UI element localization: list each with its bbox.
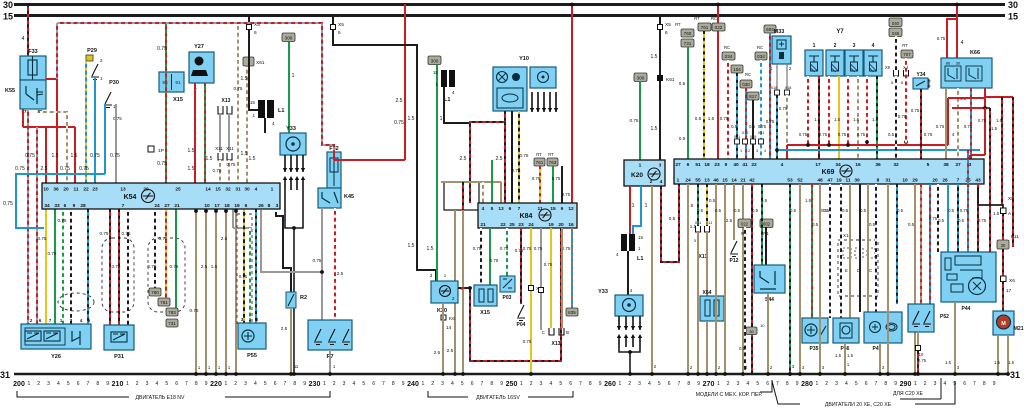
wire red continues down K66 (984, 108, 986, 155)
svg-text:39: 39 (854, 178, 860, 184)
svg-text:1.5: 1.5 (52, 153, 59, 159)
svg-text:1: 1 (440, 116, 443, 122)
svg-text:1.5: 1.5 (408, 116, 415, 122)
solenoid valve block Y26 (21, 324, 91, 360)
svg-text:K84: K84 (520, 213, 533, 220)
svg-text:3: 3 (276, 203, 279, 209)
svg-text:0.5: 0.5 (709, 198, 716, 203)
svg-text:2.5: 2.5 (337, 271, 344, 276)
junction injector feed c (846, 143, 850, 147)
wire tan below X64 to ground (706, 321, 708, 374)
svg-text:0.75: 0.75 (630, 118, 639, 123)
svg-text:0.5: 0.5 (842, 208, 849, 213)
svg-text:1: 1 (126, 381, 129, 387)
svg-text:0.5: 0.5 (823, 208, 830, 213)
svg-text:2: 2 (650, 179, 653, 185)
svg-text:8: 8 (392, 381, 395, 387)
svg-text:X11: X11 (215, 146, 223, 151)
svg-text:9: 9 (500, 381, 503, 387)
wire grey from relay K45 to R7 (321, 208, 323, 320)
wire tan from relay K20 low to ground bus (442, 303, 444, 374)
svg-text:8: 8 (589, 381, 592, 387)
ignition coil L1 right (616, 234, 644, 262)
wire red branch to fuel pump column (985, 96, 1013, 98)
wire black/white tag 040 to X9 (895, 36, 897, 70)
code tag pair 040 048 (889, 18, 902, 37)
wire red/black to valve P31 (109, 209, 111, 325)
svg-text:6: 6 (687, 162, 690, 168)
wire cyan/red collector drop to P44 (967, 150, 969, 252)
svg-text:ДВИГАТЕЛЬ E18 NV: ДВИГАТЕЛЬ E18 NV (136, 395, 186, 401)
svg-text:220: 220 (210, 381, 222, 388)
svg-text:3: 3 (47, 381, 50, 387)
wire yellow/black K69 pin 13 to X11 (706, 184, 708, 226)
svg-text:6: 6 (274, 381, 277, 387)
sensor P04 (517, 305, 526, 328)
connector X5 grey (539, 288, 544, 293)
junction R7 ground (328, 372, 332, 376)
wire tan K69 pin 8 to ground (887, 184, 889, 374)
svg-text:0.75: 0.75 (394, 120, 404, 126)
svg-text:Y26: Y26 (51, 354, 61, 360)
svg-text:P52: P52 (940, 314, 949, 320)
svg-text:3: 3 (853, 43, 856, 49)
svg-text:1.5: 1.5 (1008, 360, 1014, 365)
svg-text:6: 6 (865, 381, 868, 387)
svg-text:780: 780 (151, 290, 159, 295)
svg-text:P12: P12 (730, 258, 739, 264)
wire cyan collector line above K69 (779, 149, 980, 151)
ignition coil L1 16SV (433, 70, 455, 103)
svg-text:37: 37 (955, 162, 961, 168)
wire tan below P44 to ground (954, 302, 956, 374)
svg-text:10: 10 (760, 323, 765, 328)
svg-text:F33: F33 (28, 49, 37, 55)
svg-text:6: 6 (338, 30, 341, 36)
svg-text:0.75: 0.75 (213, 168, 222, 173)
engine control unit K54 (42, 183, 280, 209)
svg-text:X13: X13 (222, 98, 231, 104)
wire red jumper from K55 to feed (46, 78, 57, 80)
svg-text:783: 783 (168, 310, 176, 315)
svg-text:38: 38 (943, 162, 949, 168)
junction tan 16SV b (461, 372, 465, 376)
bus 15 (ignition rail) (14, 14, 1005, 17)
svg-text:1: 1 (677, 178, 680, 184)
svg-text:0.75: 0.75 (227, 162, 236, 167)
svg-text:Y33: Y33 (286, 126, 296, 132)
code tag 707 (901, 50, 913, 58)
svg-text:F11: F11 (1011, 234, 1019, 240)
svg-text:30: 30 (1001, 243, 1006, 248)
svg-text:1.5: 1.5 (241, 76, 248, 82)
wire red/black loop K84 pin 20 to relay K20 low (458, 228, 561, 361)
svg-text:0.5: 0.5 (908, 222, 915, 227)
svg-text:11: 11 (845, 178, 850, 184)
svg-text:1.5: 1.5 (211, 264, 218, 269)
svg-text:763: 763 (549, 160, 557, 165)
svg-text:K20: K20 (631, 172, 643, 179)
svg-text:6: 6 (668, 381, 671, 387)
svg-text:034: 034 (757, 54, 765, 59)
svg-text:1: 1 (271, 187, 274, 193)
svg-text:27: 27 (164, 203, 170, 209)
svg-text:9: 9 (106, 381, 109, 387)
wire tan ground 1 under K54 (195, 210, 197, 374)
svg-text:0.75: 0.75 (799, 132, 808, 137)
svg-text:3: 3 (737, 381, 740, 387)
wire black from R1 to switch S44 (765, 227, 767, 265)
wire green/red K69 to gauge P35 (811, 184, 813, 318)
svg-text:0.75: 0.75 (500, 246, 509, 251)
svg-text:1.5: 1.5 (805, 198, 812, 203)
svg-text:0.75: 0.75 (918, 358, 927, 363)
connector below P52 (916, 346, 921, 351)
wire red K66 pin 87 down right (984, 88, 986, 108)
svg-text:23: 23 (714, 162, 720, 168)
svg-text:835: 835 (568, 310, 576, 315)
svg-text:25: 25 (175, 187, 181, 193)
svg-text:6: 6 (77, 381, 80, 387)
connector X10 (529, 286, 534, 291)
wire red/black from Y10 to K84 pin 6 (504, 122, 506, 203)
svg-text:0.5: 0.5 (860, 208, 867, 213)
K84 bottom pin numbers (480, 222, 574, 228)
wire black from bus 15 through X5 X61 to coil L1 (249, 15, 262, 110)
code tag 022 (712, 23, 725, 31)
code tag 030 (740, 80, 752, 88)
gauge P35 (802, 318, 828, 352)
svg-text:5: 5 (756, 381, 759, 387)
svg-text:6: 6 (509, 206, 512, 212)
svg-text:33: 33 (54, 203, 60, 209)
wire grey from X13 b (228, 114, 230, 152)
svg-text:X13: X13 (552, 341, 561, 347)
relay K55 (20, 80, 46, 109)
svg-text:0.75: 0.75 (924, 132, 933, 137)
svg-text:31: 31 (1010, 370, 1020, 380)
K54 top pin numbers (43, 187, 273, 193)
svg-text:8: 8 (983, 381, 986, 387)
svg-text:7: 7 (776, 381, 779, 387)
svg-text:0.75: 0.75 (523, 246, 532, 251)
svg-text:22: 22 (751, 162, 757, 168)
svg-text:4: 4 (272, 121, 275, 126)
junction P46 ground (843, 372, 847, 376)
wire black spark return right (619, 347, 640, 352)
svg-text:0.75: 0.75 (532, 176, 541, 181)
svg-text:2.5: 2.5 (460, 156, 467, 162)
svg-text:X11: X11 (695, 221, 701, 225)
svg-text:6: 6 (766, 381, 769, 387)
junction pin46 ground (714, 372, 718, 376)
wire black/red K69 pin 43 to P44 (977, 184, 979, 252)
junction injector feed b (827, 143, 831, 147)
wire colored injector right pin to K69 (857, 76, 859, 159)
gauge P55 (238, 323, 266, 359)
wire black/white K69 pin 47 down (829, 184, 831, 318)
wire green to code 783 (175, 209, 177, 308)
valve P31 (104, 325, 134, 360)
svg-text:0.75: 0.75 (159, 236, 168, 241)
wire black/cyan K69 pin 7 to P44 (957, 184, 959, 252)
code tag 781 (158, 298, 170, 306)
svg-text:2: 2 (924, 381, 927, 387)
wire black/red K69 pin 42 down (751, 184, 753, 374)
svg-text:6: 6 (64, 203, 67, 209)
injector Y7 cylinder 3 (845, 43, 863, 76)
wire green from tag 763 to K84 pin 9 (552, 166, 554, 203)
wire red K20 pin to coil L1 right (629, 186, 631, 234)
svg-text:3: 3 (343, 381, 346, 387)
pressure unit M33 (770, 29, 792, 71)
wire tan/white K66 to K69 pin 37 (957, 88, 959, 159)
wire red/white X9 to feed line (905, 58, 907, 145)
svg-text:RC: RC (724, 45, 730, 50)
wire grey K84 pin 19 down (540, 228, 542, 330)
connector pair X9 X9 (885, 65, 909, 85)
code tag 300 (282, 33, 295, 42)
wire cyan/red K66 to K69 pin 3 (970, 88, 972, 159)
svg-text:1: 1 (292, 73, 295, 79)
sensor P03 (500, 276, 515, 301)
svg-text:16: 16 (568, 222, 574, 228)
svg-text:8: 8 (490, 381, 493, 387)
junction red jumper (983, 106, 987, 110)
svg-text:290: 290 (900, 381, 912, 388)
svg-text:RC: RC (757, 45, 763, 50)
svg-text:2: 2 (834, 43, 837, 49)
wire black spark return to ground (285, 190, 303, 228)
svg-text:1.5: 1.5 (834, 117, 840, 122)
svg-text:022: 022 (741, 222, 749, 227)
svg-text:P29: P29 (87, 48, 97, 54)
junction pin53 ground (788, 372, 792, 376)
wire colored injector right pin to K69 (838, 76, 840, 159)
svg-text:K45: K45 (344, 194, 354, 200)
wire red/black down to P44 area (989, 108, 991, 252)
svg-text:6: 6 (175, 381, 178, 387)
svg-text:0.75: 0.75 (79, 166, 89, 172)
svg-text:X19: X19 (742, 131, 749, 135)
wire tan below M21 to ground (997, 335, 999, 374)
svg-text:0.5: 0.5 (731, 124, 737, 129)
svg-text:4: 4 (660, 179, 663, 185)
svg-text:30: 30 (244, 187, 250, 193)
svg-text:0.5: 0.5 (669, 216, 676, 221)
svg-text:2.5: 2.5 (447, 348, 454, 353)
svg-text:9: 9 (796, 381, 799, 387)
K69 top pin numbers (675, 162, 971, 168)
svg-text:0.75: 0.75 (520, 153, 529, 158)
svg-text:1P: 1P (158, 148, 164, 154)
svg-text:2: 2 (825, 381, 828, 387)
svg-text:17: 17 (815, 162, 821, 168)
svg-text:0.5: 0.5 (869, 222, 876, 227)
svg-text:P35: P35 (810, 346, 819, 352)
wire tan to P47 (867, 184, 869, 312)
svg-text:2: 2 (136, 381, 139, 387)
code tag 835 (566, 308, 578, 316)
wire cyan from sensor P30 (104, 104, 106, 174)
section brace engines 20 XE C20 XE (772, 381, 955, 408)
svg-text:0.75: 0.75 (100, 231, 109, 236)
injector Y7 cylinder 1 (805, 43, 823, 76)
svg-text:5: 5 (694, 239, 696, 243)
svg-text:7: 7 (185, 381, 188, 387)
svg-text:3: 3 (441, 381, 444, 387)
svg-text:23: 23 (518, 222, 524, 228)
code tag 300 right (634, 73, 647, 82)
pins of Y26 (30, 318, 91, 323)
wire tan below M21 b to ground (1007, 335, 1009, 374)
relay K20 low (fuel pump relay) (431, 281, 463, 314)
svg-text:Y33: Y33 (598, 289, 608, 295)
svg-text:0.5: 0.5 (752, 208, 759, 213)
svg-text:22: 22 (83, 187, 89, 193)
svg-text:19: 19 (836, 178, 842, 184)
svg-text:2: 2 (234, 381, 237, 387)
wire thin M33 pin 1 (776, 64, 778, 90)
dashed harness outline left (102, 238, 134, 312)
svg-text:L1: L1 (278, 108, 284, 114)
connector pair X13 (218, 98, 232, 114)
svg-text:X11: X11 (706, 221, 712, 225)
svg-text:260: 260 (604, 381, 616, 388)
junction red black loop (468, 286, 472, 290)
wire tan K84 pin 16 to connector X13 B (561, 228, 563, 328)
svg-text:2.5: 2.5 (496, 156, 503, 162)
svg-text:0.75: 0.75 (110, 153, 120, 159)
svg-text:1.5: 1.5 (241, 151, 248, 157)
connector X6 (1001, 276, 1016, 294)
label K54 with logo (124, 190, 155, 203)
svg-text:1: 1 (632, 203, 635, 209)
code tag 761 (534, 158, 545, 166)
wire red/black from bus 30 to fuse F33 (27, 4, 29, 56)
wire red drop to K69 from feed line (786, 145, 788, 159)
svg-text:9: 9 (725, 162, 728, 168)
svg-text:7: 7 (382, 381, 385, 387)
svg-text:8: 8 (687, 381, 690, 387)
wire black K69 pin 39 to P47 (859, 184, 861, 312)
wire red/white injector left pin to feed (828, 76, 830, 145)
wire red/grey drop at left end (56, 23, 58, 79)
svg-text:0.75: 0.75 (148, 264, 157, 269)
svg-text:2.5: 2.5 (396, 98, 403, 104)
wire tan/white stub to K84 pin 4 (482, 182, 484, 203)
svg-text:46: 46 (713, 178, 719, 184)
svg-text:4: 4 (952, 132, 955, 137)
wire red/grey to valve Y26 pin 2 (27, 109, 29, 324)
wire green/black K69 pin 53 to ground (789, 184, 791, 374)
wire cyan/black K69 pin 10 down (896, 184, 898, 304)
wire red into K54 pin 10 (45, 127, 47, 183)
wire tan ground 2 under K54 (205, 210, 207, 374)
svg-text:4: 4 (781, 162, 784, 168)
svg-text:RT: RT (548, 152, 554, 157)
svg-text:K66: K66 (970, 50, 980, 56)
svg-text:9: 9 (303, 381, 306, 387)
svg-text:2: 2 (530, 381, 533, 387)
junction tan ground 2 top (204, 209, 208, 213)
svg-text:0.75: 0.75 (720, 116, 729, 121)
spark leads arrows right (617, 316, 642, 330)
junction pin21 ground (741, 372, 745, 376)
svg-text:1: 1 (717, 381, 720, 387)
wire yellow K84 pin 24 to ground via X10 (530, 228, 532, 374)
fuse F11 (997, 234, 1019, 249)
wire red injector feed line (787, 144, 948, 146)
wire tan ground 4 under K54 (225, 210, 227, 374)
svg-text:1.5: 1.5 (814, 117, 820, 122)
svg-text:X9: X9 (885, 65, 891, 70)
svg-text:14: 14 (205, 187, 211, 193)
code tag 760 (681, 29, 694, 37)
wire cyan/brown K84 pin 16b down (571, 228, 573, 308)
svg-text:34: 34 (835, 162, 841, 168)
svg-text:9: 9 (205, 381, 208, 387)
svg-text:10: 10 (902, 178, 908, 184)
wire green tag 760 to K69 pin 6 (687, 47, 689, 159)
svg-text:0.75: 0.75 (239, 274, 248, 279)
svg-text:24: 24 (685, 178, 691, 184)
svg-text:X18: X18 (785, 86, 792, 90)
svg-text:0.75: 0.75 (937, 36, 946, 41)
code tag 783 (166, 308, 178, 316)
svg-text:0.75: 0.75 (911, 108, 920, 113)
svg-text:230: 230 (309, 381, 321, 388)
svg-text:2.5: 2.5 (434, 350, 441, 355)
svg-text:X11: X11 (734, 135, 740, 139)
control unit K84 (478, 203, 577, 228)
valve Y34 (913, 72, 931, 89)
junction spark common (292, 226, 296, 230)
svg-text:1.5: 1.5 (249, 156, 256, 162)
svg-text:0.75: 0.75 (15, 166, 25, 172)
svg-text:7: 7 (973, 381, 976, 387)
wire red stub F32 top (333, 152, 335, 160)
svg-text:760: 760 (684, 31, 692, 36)
junction K61 (657, 75, 675, 83)
wire grey from K54 pin 26 to R7 branch (261, 210, 322, 272)
svg-text:5: 5 (491, 206, 494, 212)
svg-text:K55: K55 (5, 88, 15, 94)
junction tan ground 5 on bus 31 (234, 372, 238, 376)
wire yellow K84 pin 20 to connector X13 C (550, 228, 552, 328)
wire red into K54 pin 36 (56, 79, 58, 183)
svg-text:15: 15 (215, 187, 221, 193)
svg-text:240: 240 (407, 381, 419, 388)
wire red/cyan down to P52 (929, 184, 931, 304)
svg-text:1: 1 (645, 203, 648, 209)
svg-text:24: 24 (154, 203, 160, 209)
svg-text:3: 3 (638, 381, 641, 387)
svg-text:2: 2 (333, 381, 336, 387)
wire tan K69 pin 29 to ground (914, 184, 916, 374)
svg-text:9: 9 (402, 381, 405, 387)
svg-text:16: 16 (855, 162, 861, 168)
junction X9 feed (904, 140, 908, 144)
svg-text:X8: X8 (1008, 196, 1014, 202)
wire red jumper under K66 (948, 97, 985, 99)
svg-text:K69: K69 (822, 169, 835, 176)
svg-text:52: 52 (797, 178, 803, 184)
wire tan ground 16SV b (462, 210, 464, 374)
svg-text:8: 8 (877, 178, 880, 184)
K20 top pin numbers (639, 163, 662, 169)
svg-text:36: 36 (875, 162, 881, 168)
